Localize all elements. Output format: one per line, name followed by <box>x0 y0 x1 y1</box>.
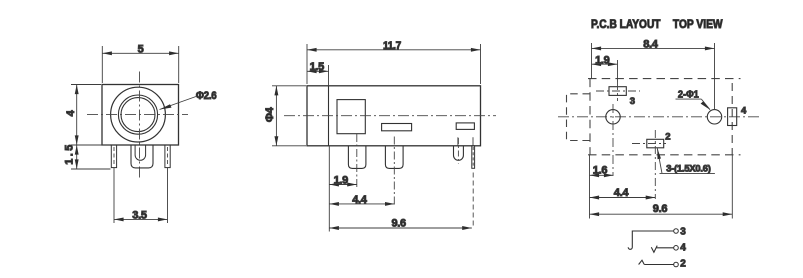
svg-text:3-(1.5X0.6): 3-(1.5X0.6) <box>666 163 710 173</box>
dimension 9.6 pcb <box>590 155 733 219</box>
dimension 5 (top width) <box>102 46 178 83</box>
svg-text:8.4: 8.4 <box>643 39 659 51</box>
dimension 9.6 side view <box>329 226 472 230</box>
pin 3 side view (short) <box>454 138 464 164</box>
pin 2 side view <box>385 137 403 206</box>
svg-text:5: 5 <box>138 43 144 55</box>
pin 4 side view (flat pin) <box>472 146 475 229</box>
footprint outline dashed <box>588 78 741 80</box>
svg-text:P.C.B LAYOUT: P.C.B LAYOUT <box>591 19 661 31</box>
jack bushing outer circle <box>111 87 166 142</box>
svg-text:Φ2.6: Φ2.6 <box>196 90 217 102</box>
svg-text:9.6: 9.6 <box>391 218 406 230</box>
inner block side view <box>337 100 365 134</box>
svg-text:4: 4 <box>741 106 747 117</box>
svg-text:TOP VIEW: TOP VIEW <box>673 19 723 31</box>
svg-text:2: 2 <box>665 132 670 143</box>
svg-text:1.5: 1.5 <box>310 61 325 73</box>
dimension 1.9 pcb <box>592 60 618 82</box>
center pin housing front view <box>131 145 153 168</box>
dimension 4.4 pcb <box>590 196 656 200</box>
slot 3 pad <box>596 82 640 101</box>
dimension 11.7 (body length) <box>307 44 481 84</box>
dimension 3.5 (pin spacing) <box>114 168 168 223</box>
label 2-dia1 with leader <box>676 99 711 110</box>
dimension 4 (body height) <box>71 85 110 170</box>
middle slot side view <box>382 124 412 131</box>
side view body rectangle <box>307 86 481 146</box>
svg-text:9.6: 9.6 <box>653 203 668 215</box>
svg-text:1.5: 1.5 <box>64 142 76 165</box>
terminal 4 contact and line <box>651 246 678 253</box>
svg-text:3: 3 <box>630 96 635 107</box>
terminal 3 line with sleeve hook <box>628 229 678 250</box>
svg-text:1.9: 1.9 <box>595 54 610 66</box>
svg-text:3: 3 <box>680 227 686 238</box>
horizontal centerline side view <box>284 115 496 117</box>
dimension dia 4 (body height) <box>272 86 306 146</box>
svg-text:2-Φ1: 2-Φ1 <box>678 89 699 100</box>
svg-text:4: 4 <box>680 243 686 254</box>
dimension 1.9 side view <box>329 147 357 232</box>
svg-text:4: 4 <box>65 109 77 116</box>
right slot side view <box>456 123 474 129</box>
dimension 4.4 side view <box>329 202 394 206</box>
slot 4 pad <box>728 108 737 126</box>
dimension 1.5 (pin length) <box>71 145 111 169</box>
mounting boss outline dashed <box>567 94 591 141</box>
front view body rectangle <box>102 85 179 146</box>
jack bushing ring circle <box>118 95 157 134</box>
hole 1 (dia 1) <box>606 104 620 176</box>
right pin front view <box>165 145 170 168</box>
label 3-(1.5X0.6) with leader <box>657 148 715 173</box>
svg-text:4.4: 4.4 <box>352 194 368 206</box>
pin 1 side view <box>348 134 366 187</box>
terminal 2 contact and line <box>639 260 679 267</box>
dimension 8.4 pcb <box>592 43 715 110</box>
hidden pin edges under right slot <box>458 137 473 146</box>
label dia 2.6 with leader <box>160 97 197 110</box>
vertical centerline front view <box>139 72 141 179</box>
svg-text:2: 2 <box>680 259 686 270</box>
horizontal centerline pcb <box>558 116 762 118</box>
svg-text:3.5: 3.5 <box>132 209 147 221</box>
jack hole circle (dia 2.6) <box>121 98 155 132</box>
horizontal centerline front view <box>87 114 188 116</box>
left pin front view <box>111 145 116 168</box>
svg-text:Φ4: Φ4 <box>264 106 276 122</box>
svg-text:1.9: 1.9 <box>334 174 349 186</box>
flange line side view <box>328 86 330 146</box>
slot 2 pad <box>632 130 666 199</box>
dimension 1.5 (flange) <box>307 65 329 86</box>
hole 2 (dia 1) <box>707 110 721 124</box>
dimension 1.6 pcb <box>590 155 614 219</box>
svg-text:1.6: 1.6 <box>593 165 608 177</box>
svg-text:11.7: 11.7 <box>383 40 401 52</box>
svg-text:4.4: 4.4 <box>614 187 630 199</box>
